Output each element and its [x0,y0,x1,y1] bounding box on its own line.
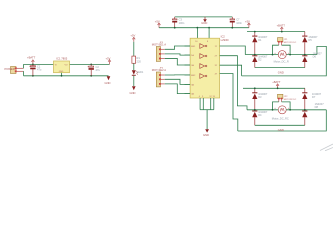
svg-text:MOT-SE1 A: MOT-SE1 A [152,43,166,47]
svg-text:GND: GND [130,91,136,95]
diode D1 1N4007 [252,32,268,55]
ground GND left section [105,76,111,85]
node junction vcc1 pin [197,27,199,29]
wire JP4 pin1 to EN2 [165,74,190,76]
wire JP4 pin3 to 4A [165,84,190,94]
node junction C7 vcc [231,27,233,29]
wire LED1 to ground [133,76,135,86]
svg-text:+5V: +5V [130,34,135,38]
node junction C2 top [90,64,92,66]
IC2 bottom ground pins [200,98,214,129]
svg-text:+BATT: +BATT [277,24,286,28]
svg-text:+BATT: +BATT [27,56,36,60]
svg-text:+5V: +5V [245,20,250,24]
svg-text:220: 220 [137,59,142,63]
svg-text:GND: GND [105,81,111,85]
wire 1Y to motor 1 terminal A [220,46,246,55]
svg-text:100n: 100n [179,21,185,25]
op-amp style driver glyph channel 3 [200,64,207,69]
svg-text:D5: D5 [308,38,312,42]
op-amp style driver glyph channel 4 [200,74,207,79]
supply +BATT [27,56,36,65]
wire VCC1 pin [196,28,198,39]
connector JP1 motor 1 [278,38,297,46]
diode D6 1N4007 [302,51,322,67]
connector JP4 inputs B [152,67,166,87]
svg-text:+5V: +5V [106,56,111,60]
diode D5 1N4007 [302,32,318,55]
capacitor C2 [87,64,100,75]
resistor R1 [132,56,141,63]
node junctions motor 2 [254,87,306,110]
ground GND bypass rail [201,17,207,25]
wire motor 2 gnd rail [255,124,305,126]
supply +5V left section [106,56,111,64]
wire motor 2 +BATT rail [243,87,305,89]
wire 4Y to motor 2 return [220,74,238,132]
IC2 left pin stubs [185,46,191,94]
svg-text:Motor_DC_RC: Motor_DC_RC [272,116,289,120]
diode D3 1N4007 [252,88,268,110]
wire motor 2 return [238,110,326,131]
motor M1 [274,51,290,64]
motor driver IC2 L293D [190,35,228,98]
node junctions motor 1 [254,31,306,56]
svg-text:GND: GND [59,71,64,73]
svg-text:+5V: +5V [155,20,160,24]
wire JP2 pin2 to terminal B [282,102,291,110]
wire 2Y to motor 2 terminal A [220,56,247,110]
capacitor C7 [230,17,243,28]
wire VCC2 pin [208,28,210,39]
connector X1 POWER [5,67,24,74]
svg-text:MOTOR1 DC: MOTOR1 DC [284,42,297,44]
node junction +BATT/C1 top [32,64,34,66]
svg-text:D7: D7 [312,95,316,99]
wire motor 1 middle left [245,54,278,56]
diode D7 1N4007 [302,88,321,110]
diode D2 1N4007 [252,55,268,68]
svg-text:GND: GND [203,133,209,137]
node junction C3 vcc [174,27,176,29]
wire motor 1 middle right [286,54,317,56]
wire 3Y to motor 1 return [220,65,242,76]
svg-text:+BATT: +BATT [272,80,281,84]
capacitor C1 [29,64,42,76]
wire motor 1 +BATT rail [247,31,305,33]
wire +12V top rail left [24,63,110,65]
svg-text:GND: GND [201,21,207,25]
wire R1 to LED1 [133,63,135,70]
motor M2 [272,106,290,121]
supply +5V LED branch [130,34,135,42]
diode D8 1N4007 [302,102,324,125]
ground GND IC2 [203,129,209,137]
wire JP3 pin3 to 2A [165,58,190,65]
wire VCC rail [159,27,249,29]
svg-text:VO: VO [65,64,68,66]
LED LED1 [132,70,144,76]
svg-text:D6: D6 [313,54,317,58]
svg-text:POWER: POWER [5,67,15,71]
node junction C1 bottom [32,75,34,77]
connector JP2 motor 2 [278,94,297,102]
svg-text:LED1: LED1 [137,70,144,74]
diode D4 1N4007 [252,110,268,126]
wire +5V to R1 [133,42,135,56]
op-amp style driver glyph channel 1 [200,44,207,49]
svg-text:Motor_DC_R: Motor_DC_R [274,60,289,64]
wire JP2 pin1 to terminal A [273,102,279,110]
svg-text:D8: D8 [315,105,319,109]
svg-text:MOT-SE2 A: MOT-SE2 A [152,68,166,72]
capacitor C3 [172,17,185,28]
wire ground bottom rail left [24,75,109,77]
svg-text:L293D: L293D [221,38,229,42]
svg-text:IC1 7805: IC1 7805 [56,57,67,61]
wire JP3 pin1 to EN1 [165,46,190,49]
corner artifact mark [320,144,333,151]
wire power connector to rails [23,64,25,75]
supply +BATT motor 1 [277,24,286,32]
connector JP3 inputs A [152,42,166,62]
node junction IC1 gnd [61,75,63,77]
svg-text:D3: D3 [258,95,262,99]
wire motor 1 gnd rail [255,67,305,69]
supply +BATT motor 2 [272,80,281,88]
svg-text:GND: GND [278,71,284,75]
node junction vcc2 pin [208,27,210,29]
wire JP4 pin2 to 3A [165,79,190,84]
svg-text:100n: 100n [236,21,242,25]
svg-text:D1: D1 [258,38,262,42]
wire JP1 pin1 to terminal A [273,45,279,54]
supply +5V logic rail left [155,20,161,28]
wire motor 1 return [242,46,327,76]
node junction C2 bottom [90,75,92,77]
svg-text:GND: GND [278,128,284,132]
wire motor 2 middle left [247,109,278,111]
svg-text:MOTOR2 DC: MOTOR2 DC [284,99,297,101]
op-amp style driver glyph channel 2 [200,54,207,59]
ground GND LED branch [130,86,136,95]
wire JP3 pin2 to 1A [165,54,190,55]
svg-text:D4: D4 [258,113,262,117]
supply +5V logic rail right [245,20,250,28]
wire JP1 pin2 to terminal B [282,45,291,54]
voltage regulator IC1 7805 [54,57,70,76]
wire motor 2 middle right [286,109,326,111]
svg-text:47u: 47u [96,68,101,72]
svg-text:47u: 47u [37,68,42,72]
svg-text:D2: D2 [258,58,262,62]
wire bypass ground rail [175,16,233,18]
